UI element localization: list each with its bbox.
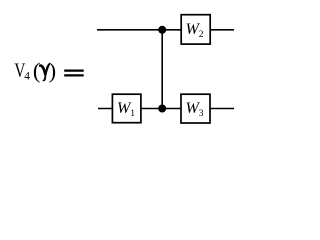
svg-text:1: 1 — [130, 109, 135, 119]
control dot bottom — [158, 105, 166, 113]
control dot top — [158, 26, 166, 34]
wire qubit 1 (top) — [97, 29, 234, 31]
svg-text:(: ( — [33, 58, 41, 83]
svg-text:2: 2 — [199, 30, 204, 40]
svg-text:4: 4 — [24, 71, 30, 83]
wire qubit 2 (bottom) — [98, 108, 234, 110]
node label V4(gamma) — [14, 58, 56, 83]
gate W2 — [181, 15, 210, 44]
wire vertical control link — [161, 30, 163, 109]
svg-text:3: 3 — [199, 109, 204, 119]
gate W1 — [112, 94, 140, 123]
gate W3 — [181, 94, 210, 123]
svg-text:): ) — [49, 58, 57, 83]
equals sign — [64, 71, 84, 76]
